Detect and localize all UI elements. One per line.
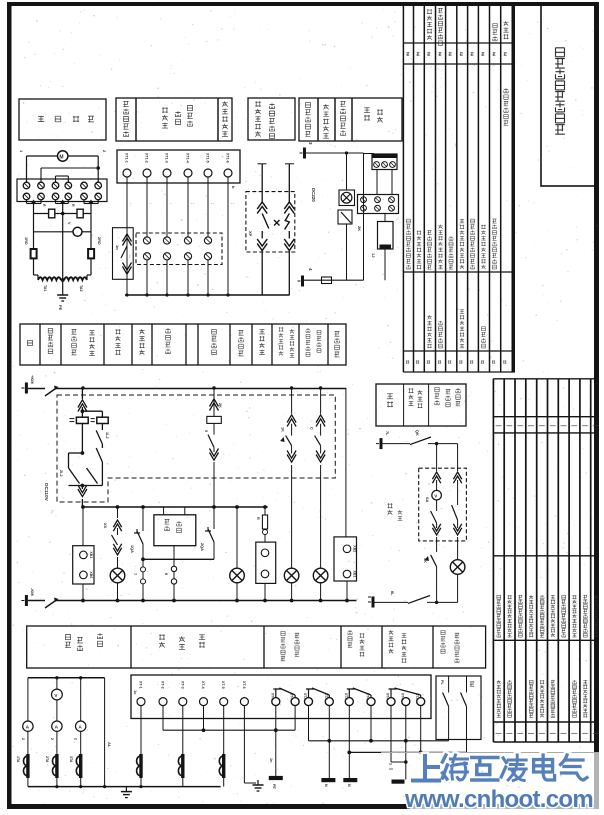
- svg-text:A: A: [55, 725, 59, 731]
- svg-text:2: 2: [50, 738, 54, 740]
- svg-text:—: —: [571, 423, 577, 429]
- svg-text:A: A: [26, 725, 30, 731]
- svg-text:—: —: [528, 731, 534, 737]
- svg-text:R: R: [71, 204, 75, 207]
- svg-text:2RD: 2RD: [97, 237, 101, 245]
- svg-text:XT-4: XT-4: [201, 681, 205, 689]
- svg-text:1QA: 1QA: [130, 545, 134, 553]
- svg-text:SA: SA: [425, 497, 429, 503]
- svg-text::: :: [231, 203, 235, 204]
- svg-text:M: M: [59, 155, 63, 161]
- svg-text:XP: XP: [248, 231, 253, 237]
- svg-text:—: —: [539, 423, 545, 429]
- svg-text:XB1: XB1: [89, 551, 93, 558]
- svg-text:PE: PE: [272, 784, 276, 789]
- svg-text:2: 2: [21, 738, 25, 740]
- svg-text:XT1-1: XT1-1: [125, 153, 129, 163]
- svg-text:A: A: [78, 725, 82, 731]
- svg-text:-KM: -KM: [30, 588, 35, 596]
- svg-text:—: —: [528, 423, 534, 429]
- svg-text:XT1-3: XT1-3: [165, 153, 169, 163]
- svg-text:XB2: XB2: [353, 545, 357, 552]
- svg-text:TA1: TA1: [43, 285, 47, 292]
- svg-text:2: 2: [74, 738, 78, 740]
- svg-text:7L: 7L: [385, 431, 389, 436]
- svg-text:—: —: [593, 423, 599, 429]
- svg-text:5: 5: [204, 430, 208, 432]
- svg-text:3K: 3K: [423, 558, 427, 563]
- svg-text:XT1-4: XT1-4: [186, 153, 190, 163]
- svg-text:8: 8: [164, 573, 168, 575]
- svg-text:XT-7: XT-7: [303, 693, 307, 700]
- svg-text:QK: QK: [415, 430, 419, 436]
- svg-text:3TA: 3TA: [69, 756, 73, 763]
- svg-text:R: R: [42, 204, 46, 207]
- svg-text:XT-7: XT-7: [386, 693, 390, 700]
- svg-text:1n: 1n: [115, 245, 120, 250]
- svg-text:—: —: [582, 731, 588, 737]
- svg-text:XT-2: XT-2: [161, 681, 165, 689]
- svg-text:1LJ: 1LJ: [105, 432, 109, 439]
- svg-text::: :: [191, 203, 195, 204]
- svg-text:XT-1: XT-1: [139, 681, 143, 689]
- svg-text:.: .: [130, 203, 134, 204]
- svg-text:+KM: +KM: [30, 375, 35, 384]
- svg-text:R: R: [256, 517, 260, 520]
- svg-text:2K: 2K: [218, 403, 222, 408]
- svg-text:XS: XS: [103, 523, 107, 529]
- svg-text:—: —: [571, 731, 577, 737]
- svg-text:XT-5: XT-5: [221, 681, 225, 689]
- svg-text:—: —: [496, 731, 502, 737]
- svg-text:.: .: [170, 203, 174, 204]
- svg-text:—: —: [561, 731, 567, 737]
- svg-text:—: —: [561, 423, 567, 429]
- svg-text:—: —: [539, 731, 545, 737]
- svg-text:XB6: XB6: [89, 571, 93, 578]
- svg-text:—: —: [506, 731, 512, 737]
- svg-text:DC110V: DC110V: [43, 483, 49, 502]
- svg-text:—: —: [517, 423, 523, 429]
- svg-text:XT1-6: XT1-6: [226, 153, 230, 163]
- svg-text:XT-7: XT-7: [344, 693, 348, 700]
- svg-text:2TA: 2TA: [45, 756, 49, 763]
- svg-text:C: C: [310, 427, 314, 430]
- svg-text:.: .: [150, 203, 154, 204]
- svg-text:XT-3: XT-3: [180, 681, 184, 689]
- svg-text:—: —: [550, 423, 556, 429]
- svg-text:7: 7: [133, 573, 137, 575]
- svg-text:—: —: [506, 423, 512, 429]
- svg-text:XT1-5: XT1-5: [206, 153, 210, 163]
- svg-text:N: N: [347, 784, 351, 787]
- svg-text:1c: 1c: [133, 690, 138, 695]
- svg-text:2LJ: 2LJ: [59, 470, 63, 477]
- svg-text:—: —: [582, 423, 588, 429]
- svg-text:8L: 8L: [390, 591, 394, 596]
- svg-text:XT-7: XT-7: [400, 693, 404, 700]
- svg-text:1RD: 1RD: [24, 237, 28, 245]
- svg-text:1n: 1n: [269, 758, 273, 763]
- svg-text:1K: 1K: [281, 427, 285, 432]
- svg-text:DC220: DC220: [311, 188, 316, 202]
- svg-text:PE: PE: [58, 305, 63, 311]
- svg-text:—: —: [550, 731, 556, 737]
- svg-text:2K: 2K: [357, 226, 362, 231]
- svg-text:AL: AL: [107, 742, 112, 748]
- svg-text:—: —: [517, 731, 523, 737]
- svg-text:www.cnhoot.com: www.cnhoot.com: [404, 786, 593, 813]
- svg-text:1J: 1J: [371, 253, 376, 257]
- svg-text::: :: [211, 203, 215, 204]
- svg-text:XT-6: XT-6: [242, 681, 246, 689]
- svg-text:2QA: 2QA: [200, 543, 204, 551]
- svg-text:XT1-2: XT1-2: [145, 153, 149, 163]
- svg-text:—: —: [496, 423, 502, 429]
- svg-text:XB1: XB1: [353, 571, 357, 578]
- svg-text:1TA: 1TA: [16, 756, 20, 763]
- svg-text:PL: PL: [440, 680, 444, 686]
